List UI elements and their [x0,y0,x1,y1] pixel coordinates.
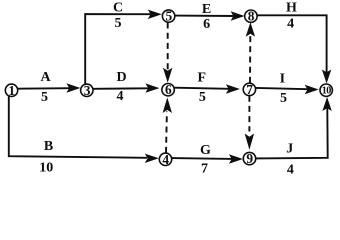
wire activity A (1->3) [17,83,81,92]
node 8 [245,9,257,24]
node 7 [243,82,255,97]
svg-text:D: D [117,70,127,85]
node 6 [162,82,174,97]
wire activity G (4->9) [172,154,243,163]
node 10 [320,84,332,97]
label J value 4 [286,142,294,178]
label A value 5 [40,70,51,105]
svg-text:5: 5 [115,16,122,31]
svg-text:F: F [198,70,207,85]
svg-text:9: 9 [246,151,253,166]
wire dummy 7->9 dashed [245,96,254,150]
svg-text:B: B [44,139,53,154]
svg-text:J: J [286,142,293,157]
svg-text:A: A [40,70,51,85]
svg-text:7: 7 [201,161,208,176]
wire activity C (3->5) [85,10,162,85]
label I value 5 [280,72,287,106]
wire activity J (9->10) [256,97,332,158]
svg-text:10: 10 [39,161,53,176]
svg-text:6: 6 [165,82,172,97]
label C value 5 [113,1,123,31]
label G value 7 [200,143,211,177]
label B value 10 [39,139,53,175]
svg-text:4: 4 [287,162,294,177]
wire dummy 4->6 dashed [163,98,172,153]
node 3 [81,83,93,98]
wire activity I (7->10) [256,85,319,94]
svg-text:1: 1 [8,83,14,98]
svg-text:E: E [202,2,211,17]
svg-text:4: 4 [287,17,294,32]
wire activity D (3->6) [93,83,159,92]
svg-text:I: I [280,72,285,87]
svg-text:5: 5 [41,90,48,105]
svg-text:7: 7 [246,82,253,97]
svg-text:3: 3 [84,83,91,98]
wire activity F (6->7) [175,84,240,93]
svg-text:H: H [286,0,297,15]
wire activity B (1->4) [9,96,159,163]
svg-text:C: C [113,1,123,16]
svg-text:6: 6 [203,17,210,32]
node 9 [243,151,255,166]
svg-text:5: 5 [280,91,287,106]
label F value 5 [198,70,207,105]
node 5 [162,9,174,24]
svg-text:5: 5 [199,90,206,105]
svg-text:4: 4 [162,152,169,167]
wire activity H (8->10) [257,15,331,83]
svg-text:4: 4 [117,89,124,104]
label H value 4 [286,0,297,31]
svg-text:8: 8 [248,9,255,24]
svg-text:10: 10 [322,86,331,97]
svg-text:5: 5 [165,9,172,24]
label E value 6 [202,2,211,32]
label D value 4 [117,70,127,104]
node 4 [159,152,171,167]
wire activity E (5->8) [175,11,245,20]
wire dummy 7->8 dashed [246,22,255,83]
node 1 [5,83,17,98]
svg-text:G: G [200,143,211,158]
wire dummy 5->6 dashed [163,23,172,83]
